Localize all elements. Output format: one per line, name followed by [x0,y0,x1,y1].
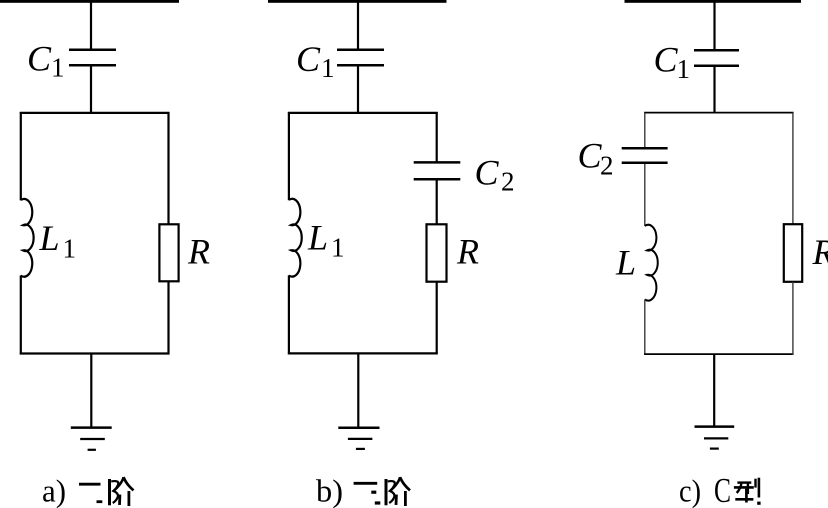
wire: loop top edge (circuit c) [644,112,794,114]
svg-text:C: C [475,153,500,193]
resistor R (circuit a) [159,224,178,281]
bus bar B (top node) [268,0,447,3]
svg-text:c): c) [679,473,701,508]
wire: loop left upper segment (circuit b) [288,112,290,200]
wire: C2 to resistor (circuit b) [436,180,438,224]
wire: loop bottom to ground (circuit a) [90,354,92,428]
svg-text:2: 2 [600,151,614,181]
wire: loop right upper segment (circuit a) [167,112,169,224]
svg-text:C: C [296,39,321,79]
wire: C1 to loop top (circuit a) [90,66,92,113]
svg-text:C: C [714,471,731,508]
wire: C2 to inductor (circuit c) [644,164,646,226]
svg-text:1: 1 [677,54,691,84]
svg-text:C: C [654,40,679,80]
svg-text:1: 1 [321,53,335,83]
caption hanzi ER (second) [79,483,101,486]
wire: loop bottom edge (circuit a) [20,352,170,354]
ground (circuit c) [695,425,735,428]
wire: loop right upper segment (circuit c) [792,113,794,225]
wire: bus B to capacitor C1 [357,2,359,49]
bus bar A (top node) [0,0,179,3]
svg-text:1: 1 [63,234,77,264]
wire: loop right top segment (circuit b) [436,112,438,162]
svg-text:L: L [615,243,636,283]
capacitor C2 (circuit c) [622,147,668,150]
ground (circuit b) [338,427,379,430]
wire: bus C to capacitor C1 [713,2,715,50]
ground (circuit a) [71,426,112,429]
svg-text:1: 1 [331,233,345,263]
resistor R (circuit b) [427,224,447,281]
wire: loop bottom to ground (circuit b) [357,353,359,427]
wire: loop right lower segment (circuit a) [167,281,169,354]
inductor L1 (circuit b) [289,199,302,277]
caption hanzi SAN (third) [354,482,378,485]
wire: C1 to loop top (circuit b) [357,66,359,113]
wire: loop top edge (circuit b) [288,112,438,114]
svg-text:C: C [27,39,52,79]
capacitor C1 (circuit a) [69,49,116,52]
wire: loop top edge (circuit a) [20,112,170,114]
wire: loop left upper segment (circuit a) [20,112,22,200]
svg-text:R: R [187,232,210,272]
wire: C1 to loop top (circuit c) [713,67,715,114]
wire: loop right lower segment (circuit c) [792,282,794,355]
capacitor C2 (circuit b) [414,161,461,164]
caption hanzi XING (type) [737,481,751,483]
wire: loop bottom to ground (circuit c) [713,354,715,426]
inductor L (circuit c) [645,225,658,301]
wire: loop bottom edge (circuit b) [288,352,438,354]
resistor R (circuit c) [784,224,802,282]
wire: loop left lower segment (circuit b) [288,275,290,354]
capacitor C1 (circuit c) [694,49,739,52]
svg-text:a): a) [42,473,66,508]
svg-text:R: R [456,232,479,272]
capacitor C1 (circuit b) [337,49,384,52]
wire: loop left lower segment (circuit c) [644,299,646,354]
wire: loop right lower segment (circuit b) [436,282,438,355]
wire: loop left top segment (circuit c) [644,113,646,148]
svg-text:2: 2 [501,167,515,197]
wire: loop bottom edge (circuit c) [644,353,794,355]
caption hanzi JIE (order), circuit a [108,479,111,505]
svg-text:L: L [307,218,328,258]
inductor L1 (circuit a) [21,199,34,277]
svg-text:L: L [39,218,60,258]
wire: bus A to capacitor C1 [90,2,92,49]
caption hanzi JIE (order), circuit b [385,479,388,505]
svg-text:C: C [578,136,603,176]
bus bar C (top node) [625,0,802,3]
wire: loop left lower segment (circuit a) [20,275,22,354]
svg-text:b): b) [316,473,343,508]
svg-text:R: R [812,232,828,272]
svg-text:1: 1 [51,52,65,82]
